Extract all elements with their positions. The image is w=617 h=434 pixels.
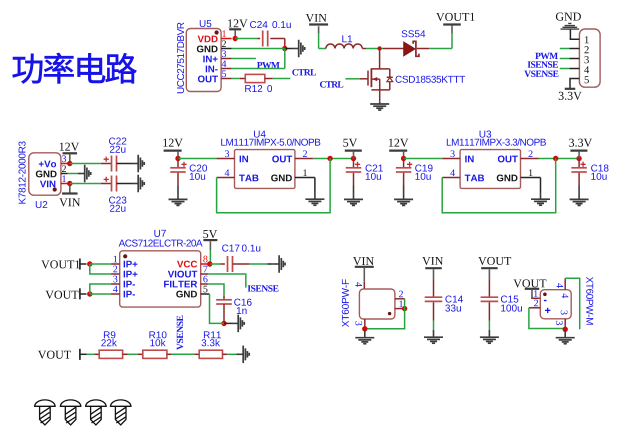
capacitor C15	[488, 280, 490, 297]
connector pin 2	[570, 48, 580, 50]
power 3.3V at connector	[565, 88, 576, 90]
U5 pin name IN-	[206, 66, 218, 73]
capacitor C17 label	[222, 245, 239, 252]
capacitor C21 plus	[355, 162, 360, 167]
ground below Q1	[370, 102, 389, 110]
capacitor C19 plus	[407, 162, 412, 167]
wire 5V down	[209, 250, 211, 264]
U7 pin 7	[201, 273, 209, 275]
wire L1 to node	[362, 48, 366, 50]
U2 designator	[36, 201, 48, 208]
net label CTRL at R12	[292, 69, 316, 75]
wire XT60PW-M pin2 gnd	[529, 308, 565, 329]
U5 pin 2	[221, 48, 232, 50]
wire CTRL to gate	[345, 78, 359, 80]
ground below C19	[394, 186, 413, 206]
node VDD junction	[233, 36, 238, 41]
net label ISENSE at connector	[528, 61, 558, 67]
port VOUT at U7	[45, 291, 78, 299]
wire VOUT to R9	[87, 353, 95, 355]
capacitor C23 plus	[104, 177, 109, 182]
earth ground symbol	[561, 23, 580, 29]
XT60PW-M keying dot	[543, 293, 547, 297]
resistor R11	[199, 350, 222, 358]
U4 pin 1	[295, 177, 315, 179]
wire OUT to R12	[232, 78, 240, 80]
power 12V at U4	[163, 139, 182, 147]
regulator U3 body	[460, 150, 520, 189]
node OUT junction U3	[576, 156, 581, 161]
node XT60PW-F pin1 junction	[402, 306, 407, 311]
ground right of R11	[237, 346, 250, 364]
wire C17 to ground	[233, 263, 250, 265]
power 5V at U4	[343, 139, 357, 147]
U2 pin 2	[61, 173, 68, 175]
wire XT60PW-M pin4 gnd loop	[565, 278, 580, 329]
wire C16 to gnd node	[223, 304, 225, 323]
power 12V at U3	[389, 139, 408, 147]
sensor U7 designator	[154, 230, 166, 237]
wire U3 OUT	[539, 158, 580, 160]
wire U4 TAB loop	[217, 159, 331, 213]
wire C15 to ground	[488, 321, 490, 331]
capacitor C22 label	[109, 138, 126, 145]
ground below U3 GND	[531, 192, 550, 205]
capacitor C19	[403, 159, 405, 168]
net label PWM at U5	[257, 62, 280, 68]
resistor R9 label	[104, 331, 115, 338]
diode SS54 label	[402, 30, 426, 37]
power 3.3V at U3	[569, 139, 592, 147]
resistor R10	[143, 350, 167, 358]
U7 pin name VIOUT	[168, 271, 197, 278]
U3 pin name GND	[497, 175, 518, 182]
capacitor C23	[111, 176, 113, 192]
ground below XT60PW-M	[556, 331, 575, 344]
capacitor C15 label	[501, 296, 518, 303]
U2 pin 3	[61, 163, 70, 165]
XT60PW-F pin 4	[363, 282, 365, 289]
sensor U7 part name	[119, 240, 203, 247]
U4 pin name GND	[271, 175, 292, 182]
capacitor C14	[433, 280, 435, 297]
U2 pin name VIN	[40, 181, 55, 188]
wire VIN down	[318, 34, 320, 49]
U3 pin 1	[521, 177, 541, 179]
U5 pin 3	[221, 58, 232, 60]
resistor R12	[245, 74, 264, 82]
U7 pin name VCC	[177, 261, 197, 268]
U5 pin 5	[221, 78, 232, 80]
power VIN at XT60PW-F	[353, 257, 374, 265]
capacitor C19 label	[415, 165, 432, 172]
connector pin 5	[570, 79, 579, 89]
screw 2	[60, 400, 80, 425]
U2 pin-1 marker dot	[53, 187, 57, 191]
XT60PW-M pin 3	[564, 319, 566, 330]
capacitor C20 plus	[181, 162, 186, 167]
connector XT60PW-M body	[540, 290, 571, 319]
wire C22 to ground	[117, 163, 132, 165]
ground right of C22	[132, 155, 145, 173]
XT60PW-F keying dot	[388, 312, 391, 315]
power GND label	[556, 13, 581, 21]
node XT60PW-M gnd junction	[563, 327, 568, 332]
node TAB junction U4	[327, 156, 332, 161]
resistor R10 label	[149, 331, 166, 338]
ground right of C16	[232, 315, 245, 333]
XT60PW-F pin 2	[395, 298, 405, 300]
wire 12V to U3 IN	[404, 158, 443, 160]
XT60PW-M plus mark	[545, 308, 550, 313]
ground right of U5	[292, 40, 305, 58]
U3 pin 3	[442, 158, 460, 160]
U4 pin name IN	[240, 156, 248, 163]
wire 12V to C22	[70, 163, 101, 165]
wire U4 OUT	[313, 158, 354, 160]
ground below C20	[169, 186, 188, 206]
wire U3 TAB loop	[442, 159, 556, 213]
capacitor C21	[353, 159, 355, 168]
wire GND to pin 1	[570, 30, 579, 40]
sensor U7 body	[120, 251, 201, 307]
node XT60PW-F pin3 junction	[362, 326, 367, 331]
U2 pin name +Vo	[39, 161, 56, 168]
capacitor C20	[177, 159, 179, 168]
capacitor C18	[578, 159, 580, 168]
transistor Q1 label	[396, 76, 466, 83]
wire IN+ PWM	[232, 58, 256, 60]
wire FILTER to C16	[208, 284, 224, 296]
U5 pin name GND	[197, 46, 218, 53]
ground below C14	[424, 330, 443, 343]
node VOUT junction at U7	[87, 291, 92, 296]
node VOUT1 junction	[87, 261, 92, 266]
capacitor C22	[111, 156, 113, 172]
resistor R11 label	[204, 331, 221, 338]
power VOUT1 top	[436, 13, 474, 21]
net label VSENSE at divider	[177, 316, 183, 350]
U2 pin name GND	[36, 171, 57, 178]
net label CTRL at gate	[320, 81, 343, 87]
connector pin 3	[570, 58, 580, 60]
XT60PW-M pin 4	[564, 278, 566, 289]
wire IN- to gnd	[232, 68, 285, 70]
wire U7 GND pin	[210, 294, 225, 323]
U7 pin name IP+ 1	[124, 261, 138, 268]
U5 pin 1	[221, 38, 232, 40]
capacitor C21 label	[366, 165, 383, 172]
power VIN at C14	[422, 257, 443, 265]
wire 12V to U4 IN	[178, 158, 217, 160]
U7 pin 5	[201, 293, 210, 295]
regulator U4 body	[235, 150, 295, 189]
op-amp U5 body	[186, 29, 221, 92]
capacitor C14 label	[445, 296, 463, 303]
U3 pin name TAB	[465, 175, 484, 182]
node C16 gnd junction	[221, 321, 226, 326]
wire C23 to ground	[117, 183, 132, 185]
U3 pin 2	[521, 158, 539, 160]
U5 pin 4	[221, 68, 232, 70]
connector P1 body	[579, 29, 600, 87]
screw 4	[111, 400, 131, 425]
U5 pin name OUT	[198, 76, 218, 83]
connector pin 4	[570, 68, 580, 70]
ground below U4 GND	[305, 192, 324, 205]
transistor Q1 CSD18535KTTT	[368, 68, 393, 102]
power 12V at U5	[228, 19, 247, 27]
U7 pin name IP+ 2	[124, 271, 138, 278]
connector XT60PW-F name	[342, 279, 349, 327]
U7 pin 6	[201, 283, 209, 285]
wire VOUT to IP- pins	[90, 293, 111, 295]
port VOUT1 at U7	[41, 260, 79, 268]
U7 pin 1	[111, 263, 120, 265]
wire VCC to C17	[210, 263, 220, 265]
connector XT60PW-F body	[359, 289, 395, 319]
power VOUT at C15	[478, 257, 511, 265]
U5 pin name IN+	[203, 56, 217, 63]
connector XT60PW-M name	[586, 277, 593, 325]
capacitor C16 label	[234, 299, 251, 306]
capacitor C18 label	[591, 165, 608, 172]
XT60PW-M minus mark	[544, 300, 547, 302]
wire VDD to C24	[235, 38, 257, 40]
U4 pin 3	[217, 158, 235, 160]
wire U2 GND	[68, 173, 79, 175]
U4 pin name TAB	[239, 175, 258, 182]
transistor Q1 drain wire	[379, 49, 381, 69]
ground right of C17	[272, 255, 285, 273]
wire VOUT1 down	[451, 34, 453, 49]
power 5V at U7	[203, 230, 217, 238]
node IN junction U4	[175, 156, 180, 161]
U7 pin name IP- 3	[124, 281, 135, 288]
U5 pin name VDD	[198, 36, 218, 43]
capacitor C20 label	[190, 165, 207, 172]
wire VOUT to XT60PW-M pin1	[531, 290, 533, 298]
capacitor C24	[262, 31, 264, 47]
capacitor C18 plus	[581, 162, 586, 167]
U7 pin name GND	[176, 291, 197, 298]
inductor L1 label	[342, 35, 352, 42]
ground below C18	[570, 186, 589, 206]
XT60PW-M pin 2	[529, 307, 540, 309]
capacitor C17	[227, 256, 229, 272]
diode SS54	[404, 42, 415, 56]
wire U5 GND	[232, 48, 285, 50]
ground below C21	[344, 186, 363, 206]
node IN junction U3	[401, 156, 406, 161]
regulator U4 designator	[254, 131, 266, 138]
wire VIOUT ISENSE	[208, 274, 246, 288]
ground below XT60PW-F	[355, 331, 374, 344]
node VIN junction at U2	[67, 181, 72, 186]
resistor R9	[99, 350, 122, 358]
XT60PW-F pin 1	[395, 308, 405, 310]
wire C14 to ground	[433, 321, 435, 331]
regulator U3 designator	[480, 131, 492, 138]
U7 pin 2	[111, 273, 120, 275]
resistor R12 label	[245, 85, 262, 92]
connector pin 1	[585, 36, 589, 43]
U4 pin name OUT	[272, 156, 292, 163]
node TAB junction U3	[553, 156, 558, 161]
U7 pin name IP- 4	[124, 291, 135, 298]
port VOUT at divider	[38, 351, 71, 359]
ground right of C23	[132, 175, 145, 193]
wire XT60PW-F gnd loop	[365, 299, 405, 329]
U3 pin 4	[442, 177, 460, 179]
U7 pin 8	[201, 263, 210, 265]
node OUT junction U4	[351, 156, 356, 161]
wire R12 to CTRL	[265, 78, 273, 80]
U3 pin name OUT	[498, 156, 518, 163]
capacitor C23 label	[109, 197, 126, 204]
U5 designator	[200, 20, 212, 27]
wire R10 to R11 VSENSE	[167, 353, 172, 355]
node 12V junction at U2	[67, 161, 72, 166]
regulator U2 body	[29, 153, 61, 195]
U7 pin 4	[111, 293, 120, 295]
regulator U3 part name	[447, 138, 546, 145]
U7 pin 3	[111, 283, 120, 285]
wire U4 GND pin	[314, 178, 316, 193]
wire SS54 to VOUT1	[417, 48, 429, 50]
power VOUT at XT60PW-M	[513, 279, 546, 287]
U7 pin name FILTER	[164, 281, 197, 288]
wire VOUT1 to IP+ pins	[90, 263, 111, 265]
net label ISENSE at U7	[248, 285, 279, 291]
net label VSENSE at connector	[524, 71, 558, 77]
wire U3 GND pin	[540, 178, 542, 193]
node switch junction	[377, 46, 381, 50]
U2 part name K7812-2000R3	[19, 141, 26, 203]
U5 part name UCC27517DBVR	[177, 22, 184, 93]
regulator U4 part name	[221, 138, 320, 145]
screw 1	[35, 400, 55, 425]
capacitor C24 label	[250, 21, 268, 28]
node GND junction at U5	[282, 46, 287, 51]
U7 pin-1 marker dot	[123, 254, 127, 258]
wire R11 to ground	[223, 353, 228, 355]
ground at U2 pin2	[78, 165, 91, 183]
inductor L1	[326, 44, 362, 49]
wire R9 to R10	[123, 353, 128, 355]
wire C24 to gnd node	[270, 38, 285, 40]
power VIN top	[306, 14, 327, 22]
capacitor C22 plus	[104, 157, 109, 162]
U5 pin-1 marker dot	[215, 30, 219, 34]
power 12V at U2	[60, 143, 79, 151]
wire VIN to C23	[70, 183, 101, 185]
net label PWM at connector	[535, 53, 558, 59]
U3 pin name IN	[465, 156, 473, 163]
power VIN below U2	[69, 184, 71, 193]
U2 pin 1	[61, 183, 70, 185]
ground below C15	[480, 330, 499, 343]
title 功率电路	[13, 53, 137, 84]
XT60PW-M pin 1	[531, 297, 540, 299]
U4 pin 4	[217, 177, 235, 179]
node VCC junction at U7	[207, 261, 212, 266]
capacitor C16	[216, 299, 232, 301]
U4 pin 2	[295, 158, 313, 160]
screw 3	[86, 400, 106, 425]
XT60PW-F pin 3	[364, 319, 366, 329]
